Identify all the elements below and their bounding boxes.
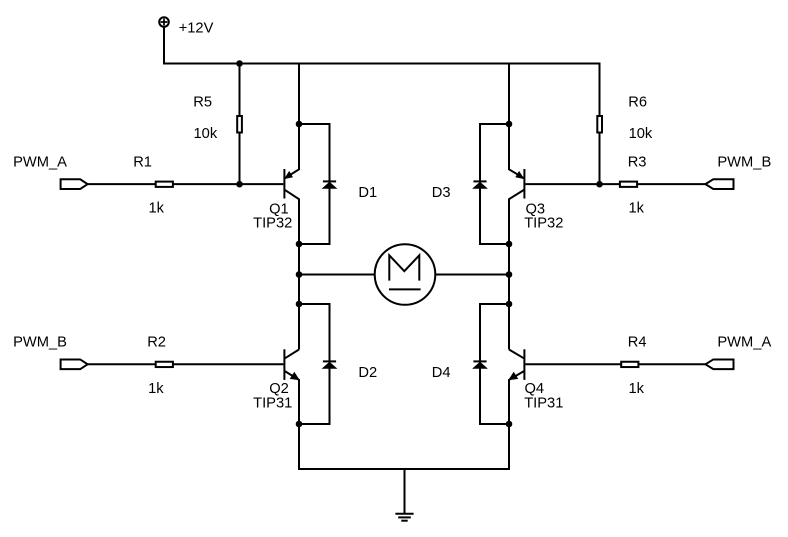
svg-text:PWM_A: PWM_A — [717, 335, 771, 351]
wire Q1 collector to motor left node — [298, 244, 300, 275]
svg-text:R2: R2 — [147, 335, 166, 351]
junction D4 cathode tee — [506, 301, 513, 308]
wire motor right node to Q4 collector — [508, 275, 510, 305]
transistor Q1 base bar — [283, 169, 285, 199]
wire D4 branch — [480, 304, 509, 424]
transistor Q1 emitter arrow (PNP) — [285, 172, 292, 179]
transistor Q4 emitter arrow (NPN) — [509, 373, 517, 380]
svg-text:D3: D3 — [432, 185, 451, 201]
ground — [395, 514, 413, 521]
motor M underline — [389, 288, 421, 290]
transistor Q3 collector lead — [509, 190, 524, 244]
power +12V symbol — [159, 17, 169, 27]
junction Q3 collector / D3 anode — [506, 241, 513, 248]
wire ground stem — [404, 469, 406, 514]
resistor R1 — [156, 182, 173, 187]
junction D1 cathode tee — [296, 121, 303, 128]
diode D4 — [473, 361, 486, 368]
wire down to Q4 collector — [508, 304, 510, 350]
junction R6 / Q3 base — [596, 181, 603, 188]
input port PWM_B (top right) — [705, 179, 733, 189]
diode D3 — [473, 181, 486, 188]
junction Q4 emitter / D4 anode — [506, 421, 513, 428]
wire motor left node to Q2 collector — [298, 275, 300, 305]
wire R2 to Q2 base — [172, 363, 283, 365]
svg-text:R1: R1 — [133, 154, 152, 170]
svg-text:1k: 1k — [629, 381, 645, 397]
transistor Q4 emitter lead — [509, 371, 524, 424]
junction D2 cathode tee — [296, 301, 303, 308]
motor M1 body — [375, 244, 436, 305]
transistor Q3 emitter lead — [509, 64, 524, 179]
svg-text:PWM_B: PWM_B — [717, 154, 771, 170]
input port PWM_A (top left) — [61, 179, 88, 189]
input port PWM_B (bottom left) — [61, 359, 88, 369]
wire R4 to PWM_A port — [638, 363, 705, 365]
svg-text:PWM_B: PWM_B — [13, 335, 67, 351]
wire motor left lead — [299, 274, 376, 276]
svg-text:R6: R6 — [628, 95, 647, 111]
svg-text:PWM_A: PWM_A — [13, 154, 67, 170]
svg-text:10k: 10k — [194, 126, 218, 142]
resistor R3 — [620, 182, 637, 187]
junction R5 / Q1 base — [236, 181, 243, 188]
transistor Q1 collector lead — [285, 190, 299, 244]
wire R5 bottom lead — [239, 133, 241, 185]
junction motor right node — [506, 271, 513, 278]
transistor Q2 collector lead — [285, 350, 299, 359]
wire R3 to PWM_B port — [637, 183, 705, 185]
wire D3 branch — [480, 124, 509, 244]
svg-text:TIP32: TIP32 — [524, 216, 563, 232]
transistor Q3 base bar — [523, 169, 525, 199]
svg-text:D4: D4 — [432, 365, 451, 381]
wire Q3 collector to motor right node — [508, 244, 510, 275]
wire Q3 base to R3 — [525, 183, 621, 185]
wire D2 branch — [299, 304, 330, 424]
wire ground bus — [299, 424, 509, 469]
svg-text:R4: R4 — [628, 335, 647, 351]
transistor Q2 emitter lead — [285, 371, 299, 424]
svg-text:D2: D2 — [358, 365, 377, 381]
svg-text:1k: 1k — [148, 381, 164, 397]
junction Q1 collector / D1 anode — [296, 241, 303, 248]
wire PWM_B port to R2 — [88, 363, 157, 365]
transistor Q2 base bar — [283, 349, 285, 380]
resistor R4 — [621, 362, 638, 367]
wire R5 top lead — [239, 64, 241, 117]
transistor Q1 emitter lead — [285, 64, 299, 179]
transistor Q2 emitter arrow (NPN) — [291, 373, 299, 380]
svg-text:D1: D1 — [358, 185, 377, 201]
svg-text:TIP31: TIP31 — [253, 395, 292, 411]
wire Q4 base to R4 — [525, 363, 622, 365]
input port PWM_A (bottom right) — [705, 359, 733, 369]
junction D3 cathode tee — [506, 121, 513, 128]
junction motor left node — [296, 271, 303, 278]
wire +12V supply bus — [164, 26, 600, 115]
junction Q2 emitter / D2 anode — [296, 421, 303, 428]
svg-text:10k: 10k — [629, 126, 653, 142]
svg-text:R3: R3 — [628, 154, 647, 170]
transistor Q4 collector lead — [509, 350, 524, 359]
motor M glyph — [389, 255, 419, 280]
wire PWM_A port to R1 — [88, 183, 157, 185]
svg-text:TIP32: TIP32 — [253, 216, 292, 232]
svg-text:TIP31: TIP31 — [524, 395, 563, 411]
resistor R5 — [237, 116, 242, 133]
wire down to Q2 collector — [298, 304, 300, 350]
svg-text:1k: 1k — [629, 200, 645, 216]
transistor Q3 emitter arrow (PNP) — [516, 172, 523, 179]
diode D2 — [323, 361, 336, 368]
transistor Q4 base bar — [523, 349, 525, 380]
junction R5 top tee — [236, 60, 243, 67]
wire R6 bottom lead — [599, 133, 601, 185]
svg-text:R5: R5 — [193, 95, 212, 111]
resistor R2 — [156, 362, 173, 367]
wire D1 branch — [299, 124, 330, 244]
svg-text:+12V: +12V — [179, 21, 214, 37]
diode D1 — [323, 181, 336, 188]
wire R1 to Q1 base — [172, 183, 283, 185]
resistor R6 — [597, 116, 602, 133]
svg-text:1k: 1k — [149, 200, 165, 216]
wire motor right lead — [434, 274, 509, 276]
